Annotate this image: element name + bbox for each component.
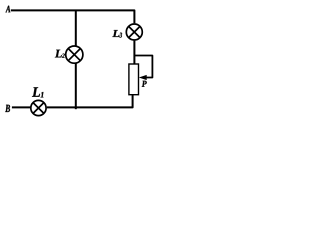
- wire from B to lamp L1: [12, 106, 31, 108]
- label P: [142, 81, 147, 87]
- wire lamp L2 to bottom rail junction: [75, 63, 77, 109]
- node B: [5, 105, 10, 112]
- lamp L2: [66, 46, 83, 63]
- label L1: [32, 87, 43, 97]
- label L3: [112, 30, 122, 37]
- wire rheostat bottom to bottom rail corner: [47, 95, 133, 107]
- wire top rail from A to top-right corner, down to lamp L3: [11, 10, 135, 23]
- wire middle branch from top rail to lamp L2: [75, 10, 77, 45]
- label L2: [55, 50, 65, 58]
- wire wiper branch to right and down: [134, 56, 152, 78]
- lamp L3: [126, 24, 142, 40]
- wire lamp L3 to rheostat top: [133, 41, 135, 64]
- rheostat P body: [129, 64, 139, 95]
- lamp L1: [31, 100, 46, 115]
- node A: [6, 6, 11, 13]
- arrowhead of rheostat wiper: [139, 75, 147, 80]
